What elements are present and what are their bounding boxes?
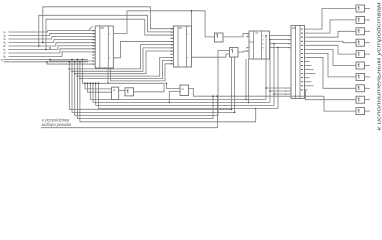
wire DD5 Q2 feedback down — [273, 44, 275, 106]
pin DD5 R — [247, 50, 250, 52]
pin DD6 out 1 — [305, 32, 308, 34]
wire to shaper input 1 — [85, 83, 112, 89]
wire DD4 bottom feed 1 — [231, 57, 233, 109]
pin DD1.9 — [92, 54, 95, 56]
junction — [49, 47, 51, 49]
buffer DD15 (1) — [356, 96, 365, 103]
wire bus A4 left riser — [97, 83, 99, 108]
pin DD1.8 — [92, 51, 95, 53]
wire DD11 to DD12 — [119, 90, 125, 92]
svg-text:к исполнительным устройствам: к исполнительным устройствам — [375, 2, 382, 130]
pin DD6 out 12 — [305, 77, 308, 79]
wire DD2 output 2 to gate DD4 — [191, 54, 229, 57]
wire DD6 out 3 to buffer — [308, 41, 357, 42]
wire DD13 input 1 — [166, 83, 180, 88]
wire band 3 from input bus — [75, 51, 174, 74]
wire DD4 bottom feed 2 — [234, 57, 236, 112]
wire drop v1 B1 — [69, 62, 231, 110]
wire DD5 Q0 to DD6 — [272, 35, 288, 37]
wire DD1 bottom drop 1 — [107, 68, 109, 83]
wire DD1 bottom drop 2 — [110, 68, 112, 81]
decoder DD6 — [291, 26, 305, 99]
wire DD1 output 1 over top to DD2 — [113, 11, 214, 37]
pin DD6 out 5 — [305, 48, 308, 50]
pin DD1.11 — [92, 60, 95, 62]
pin DD1.3 — [92, 36, 95, 38]
wire control line L4 — [46, 19, 173, 49]
pin DD2.12 — [170, 63, 173, 65]
or-gate DD4 — [230, 48, 239, 58]
wire DD4 out to counter -1 — [238, 50, 247, 53]
svg-text:RG: RG — [101, 27, 105, 30]
wire DD6 out 7 to buffer — [308, 57, 357, 88]
svg-text:1: 1 — [262, 35, 264, 37]
pin DD6 out 14 — [305, 85, 308, 87]
pin DD2.7 — [170, 47, 173, 49]
pin DD1.4 — [92, 39, 95, 41]
pin DD2.2 — [170, 31, 173, 33]
wire bus A1 link to DD6 enable — [266, 87, 288, 89]
wire DD6 out 6 to buffer — [308, 53, 357, 77]
or-gate DD3 — [215, 33, 224, 42]
wire drop v3 B3 to DD4 input — [75, 51, 230, 116]
svg-text:выбора режима: выбора режима — [42, 122, 72, 127]
wire long line to buffer 10 — [324, 96, 356, 111]
pin DD1.12 — [92, 63, 95, 65]
pin DD6 in 2 — [288, 39, 291, 41]
wire input 8 to DD1 — [9, 52, 96, 57]
wire bus B5 mode select — [41, 96, 218, 128]
wire band 6 from DD1 — [111, 64, 174, 81]
wire band 1 from input bus — [69, 45, 173, 69]
wire DD6 out 8 stub — [308, 61, 310, 63]
buffer DD10 (1) — [356, 39, 365, 46]
wire bus A3 — [96, 105, 274, 107]
wire buffer DD14 output — [365, 87, 371, 89]
pin DD2.9 — [170, 53, 173, 55]
wire DD5 Q3 to DD6 — [272, 47, 288, 49]
wire bus A3 link to DD6 enable — [274, 93, 288, 95]
counter DD5 — [249, 31, 270, 59]
wire DD5 bottom to bus — [245, 59, 247, 100]
pin DD6 in 4 — [288, 43, 291, 45]
wire buffer DD7 output — [365, 8, 371, 10]
svg-text:CT: CT — [255, 32, 259, 35]
wire input 10 to DD1 — [4, 61, 89, 63]
pin DD6 out 13 — [305, 81, 308, 83]
pin DD6 out 11 — [305, 73, 308, 75]
one-shot DD11 (G) — [112, 87, 119, 99]
wire input 9 to DD1 — [4, 58, 89, 60]
buffer DD7 (1) — [356, 5, 365, 12]
buffer DD12 (1) — [356, 62, 365, 69]
wire DD6 out 13 stub — [308, 81, 312, 83]
pin DD6 out 8 — [305, 61, 308, 63]
pin DD2.8 — [170, 50, 173, 52]
wire DD6 out 11 stub — [308, 73, 316, 75]
wire DD6 out 9 stub — [308, 65, 312, 67]
wire DD6 out 15 to buffer 9 — [305, 90, 357, 100]
pin DD1.2 — [92, 33, 95, 35]
register DD1 — [95, 26, 113, 68]
pin DD1.6 — [92, 45, 95, 47]
wire input 4 to DD1 — [9, 40, 96, 43]
wire bus A2 link to DD6 enable — [270, 90, 288, 92]
pin DD1.1 — [92, 30, 95, 32]
pin DD1.7 — [92, 48, 95, 50]
svg-text:RG: RG — [179, 27, 183, 30]
wire band 2 from input bus — [72, 48, 173, 71]
wire DD13 input 2 — [169, 90, 180, 92]
pin DD6 out 6 — [305, 52, 308, 54]
wire generator row — [82, 82, 164, 84]
wire DD2 output 1 loop to gate DD3 — [190, 11, 192, 34]
pin DD6 in 8 — [288, 47, 291, 49]
wire band 4 from input bus — [77, 57, 173, 76]
wire input 3 to DD1 — [9, 37, 96, 39]
svg-text:8c: 8c — [3, 56, 6, 59]
pin DD2.6 — [170, 44, 173, 46]
wire DD5 Q0 feedback down — [265, 36, 267, 100]
buffer DD14 (1) — [356, 85, 365, 92]
wire DD6 out 0 to buffer — [308, 9, 357, 30]
svg-text:4: 4 — [262, 43, 264, 45]
wire buffer DD16 output — [365, 110, 371, 112]
wire DD12 feedback up — [134, 83, 165, 92]
pin DD6 enable 3 — [288, 93, 291, 95]
wire input 6 to DD1 — [9, 46, 96, 50]
wire DD5 Q1 feedback down — [269, 40, 271, 103]
svg-text:o: o — [187, 57, 188, 59]
wire DD6 out 1 to buffer — [308, 20, 357, 33]
buffer DD11 (1) — [356, 51, 365, 58]
wire drop v5 B5 — [80, 62, 256, 122]
pin DD2.11 — [170, 60, 173, 62]
register DD2 — [173, 26, 191, 67]
wire bus A2 left riser — [92, 83, 94, 102]
pin DD2.1 — [170, 28, 173, 30]
svg-text:G: G — [113, 88, 115, 92]
svg-text:DC: DC — [293, 27, 297, 30]
svg-text:o: o — [187, 34, 188, 36]
wire buffer DD13 output — [365, 76, 371, 78]
wire DD5 Q1 to DD6 — [272, 39, 288, 41]
pin DD6 out 10 — [305, 69, 308, 71]
wire buffer DD8 output — [365, 19, 371, 21]
pin DD6 in 1 — [288, 35, 291, 37]
pin DD6 out 0 — [305, 28, 308, 30]
wire input 1 to DD1 — [9, 31, 96, 33]
svg-text:8: 8 — [262, 47, 264, 49]
svg-text:o: o — [109, 33, 110, 35]
wire DD5 Q2 to DD6 — [272, 43, 288, 45]
wire DD6 out 5 to buffer — [308, 49, 357, 65]
wire input 7 to DD1 — [9, 49, 96, 53]
pin DD2.10 — [170, 56, 173, 58]
wire bus A4 — [98, 108, 278, 110]
pin DD6 out 15 — [305, 89, 308, 91]
wire buffer DD10 output — [365, 42, 371, 44]
wire buffer DD12 output — [365, 65, 371, 67]
wire bus A2 — [93, 102, 270, 104]
wire DD6 out 14 stub — [308, 85, 314, 87]
wire bus A3 left riser — [95, 83, 97, 105]
pin DD6 out 7 — [305, 56, 308, 58]
pin DD6 out 2 — [305, 36, 308, 38]
wire buffer DD15 output — [365, 99, 371, 101]
pin DD5 -1 — [247, 36, 250, 38]
wire clock into DD1 top — [89, 26, 93, 30]
pin DD6 enable 2 — [288, 90, 291, 92]
wire input 2 to DD1 — [9, 34, 96, 36]
wire DD1 output 2 to DD2 — [113, 41, 173, 57]
pin DD6 out 3 — [305, 40, 308, 42]
buffer DD13 (1) — [356, 73, 365, 80]
pin DD2.3 — [170, 34, 173, 36]
wire input 5 to DD1 — [9, 43, 96, 46]
wire DD6 out 12 stub — [308, 77, 310, 79]
wire DD13 out long line right — [189, 88, 325, 96]
pin DD5 +1 — [247, 33, 250, 35]
wire drop v6 generator row — [81, 59, 83, 83]
pin DD5 C — [247, 46, 250, 48]
wire band 5 from input bus — [80, 61, 173, 79]
svg-text:o: o — [109, 58, 110, 60]
wire buffer DD11 output — [365, 53, 371, 55]
buffer DD8 (1) — [356, 16, 365, 23]
pin DD1.10 — [92, 57, 95, 59]
wire DD6 out 4 to buffer — [308, 45, 357, 54]
wire buffer DD9 output — [365, 30, 371, 32]
wire drop v2 B2 — [72, 59, 235, 112]
svg-text:2: 2 — [262, 39, 264, 41]
one-shot DD13 (G) — [180, 85, 189, 96]
pin DD2.4 — [170, 37, 173, 39]
pin DD6 enable 1 — [288, 87, 291, 89]
pin DD6 out 4 — [305, 44, 308, 46]
wire DD5 Q3 feedback down — [277, 48, 279, 109]
pin DD1.5 — [92, 42, 95, 44]
wire drop v4 B4 — [77, 59, 213, 118]
wire DD6 out 10 stub — [308, 69, 314, 71]
buffer DD9 (1) — [356, 28, 365, 35]
wire control line L3 — [39, 15, 174, 46]
wire to shaper input 2 — [88, 83, 112, 92]
wire DD6 out 2 to buffer — [308, 31, 357, 37]
pin DD6 out 9 — [305, 65, 308, 67]
pin DD2.5 — [170, 40, 173, 42]
wire DD3 out to counter +1 — [223, 34, 247, 37]
wire bus A1 — [90, 99, 266, 101]
svg-text:G: G — [182, 87, 185, 91]
wire bus A1 left riser — [89, 83, 91, 99]
gate DD12 (1) — [125, 88, 134, 96]
wire control line L1 top — [43, 7, 174, 43]
buffer DD16 (1) — [356, 108, 365, 115]
